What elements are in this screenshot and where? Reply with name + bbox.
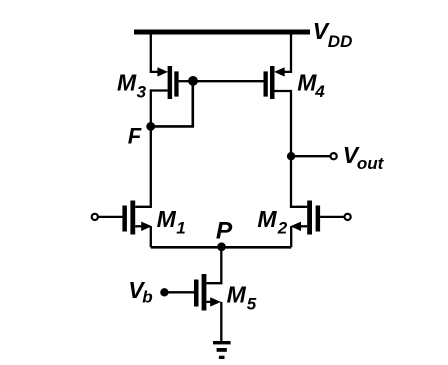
junction dot node P [217, 242, 226, 251]
label M2 [257, 206, 287, 237]
net label Vout [343, 142, 385, 173]
output terminal (open circle) [331, 153, 337, 159]
input terminal M1 gate (open circle) [92, 214, 98, 220]
net label Vb [128, 277, 152, 307]
transistor M1 (NMOS) [122, 201, 151, 235]
label M1 [157, 206, 186, 237]
wire M2 gate to input terminal [320, 216, 344, 218]
wire Vout node to output terminal [291, 155, 330, 157]
label M5 [227, 282, 257, 314]
node F junction dot [146, 122, 155, 131]
svg-text:4: 4 [314, 82, 325, 101]
ground [213, 341, 231, 359]
net label VDD [313, 18, 353, 51]
wire M5 source to ground [220, 302, 222, 341]
wire M3 source to VDD rail [151, 32, 159, 72]
svg-text:3: 3 [137, 83, 147, 102]
label M4 [297, 70, 325, 102]
transistor M4 (PMOS) [264, 66, 285, 99]
wire node F to M1 drain [135, 126, 151, 206]
wire Vout node to M2 drain [291, 156, 307, 207]
svg-text:5: 5 [247, 295, 257, 314]
wire M1 source to node P [150, 226, 152, 247]
svg-text:M: M [117, 70, 137, 96]
wire input to M1 gate [98, 216, 122, 218]
transistor M5 (NMOS) [194, 274, 221, 311]
wire M4 source to VDD rail [283, 32, 291, 72]
svg-text:M: M [157, 206, 177, 232]
input terminal M2 gate (open circle) [345, 214, 351, 220]
wire Vb to M5 gate [164, 291, 194, 293]
svg-text:M: M [227, 282, 247, 308]
transistor M3 (PMOS) [157, 66, 193, 99]
wire M2 source to node P [290, 226, 292, 247]
svg-text:2: 2 [277, 218, 288, 237]
svg-text:DD: DD [328, 32, 353, 51]
junction dot Vout node [287, 152, 295, 160]
VDD power rail [134, 30, 310, 35]
svg-text:M: M [257, 206, 277, 232]
svg-text:out: out [357, 154, 385, 173]
junction dot M3 gate node [188, 76, 198, 86]
Vb terminal dot [160, 288, 168, 296]
svg-text:F: F [128, 123, 142, 148]
wire gate node down to node F (M3 diode connection) [151, 81, 193, 126]
wire M4 drain to node Vout [275, 91, 292, 156]
wire node P to M5 drain [206, 247, 221, 283]
svg-text:1: 1 [176, 218, 185, 237]
label M3 [117, 70, 147, 102]
svg-text:P: P [216, 217, 233, 244]
svg-text:M: M [297, 70, 317, 96]
node P rail (M1 source to M2 source) [151, 246, 291, 249]
transistor M2 (NMOS) [290, 201, 320, 235]
wire M3 gate to M4 gate [193, 80, 265, 82]
wire M3 drain to node F [151, 91, 168, 127]
svg-text:b: b [142, 288, 152, 307]
